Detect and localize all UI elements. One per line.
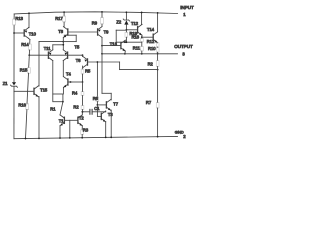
svg-text:R12: R12 xyxy=(147,39,155,44)
transistor T2 xyxy=(77,117,79,123)
step to T7 collector xyxy=(102,92,111,94)
svg-text:R2: R2 xyxy=(73,105,79,110)
svg-text:T13: T13 xyxy=(110,41,118,46)
svg-text:R11: R11 xyxy=(133,45,141,50)
transistor T13 xyxy=(102,45,121,47)
bottom rail (GND) xyxy=(14,136,178,138)
resistor R11 xyxy=(140,46,143,51)
svg-text:T15: T15 xyxy=(40,88,48,93)
T12 collector to rail xyxy=(141,12,143,24)
zener Z1 xyxy=(12,82,16,85)
svg-text:R18: R18 xyxy=(132,34,140,39)
transistor T6 xyxy=(87,59,89,65)
transistor T10 xyxy=(14,32,24,34)
svg-text:R3: R3 xyxy=(83,127,89,132)
resistor R3 xyxy=(81,126,83,130)
wire x30 slanted (T10 emitter chain) xyxy=(29,39,31,44)
svg-text:T6: T6 xyxy=(76,58,82,63)
transistor T1 xyxy=(63,117,65,123)
resistor R12 xyxy=(156,43,159,47)
T8-T9 base wire xyxy=(68,31,98,33)
svg-text:Z1: Z1 xyxy=(3,81,9,86)
T5 to T4 wire xyxy=(62,61,64,77)
svg-text:T8: T8 xyxy=(58,29,64,34)
svg-text:T1: T1 xyxy=(59,118,65,123)
svg-text:Z2: Z2 xyxy=(116,19,122,24)
resistor R5 xyxy=(81,69,84,74)
resistor R15 xyxy=(28,68,31,74)
wire R1 box to T1 collector xyxy=(60,102,63,115)
transistor T5 xyxy=(67,52,69,58)
svg-text:R6: R6 xyxy=(93,96,99,101)
resistor R13 xyxy=(13,19,16,25)
resistor R17 xyxy=(63,16,66,22)
T11 emitter corner xyxy=(52,45,54,50)
T3 emitter xyxy=(105,121,107,123)
transistor T15 xyxy=(14,90,34,92)
T13 emitter xyxy=(124,51,126,54)
OUTPUT wire y53.8 xyxy=(102,53,178,55)
svg-text:R14: R14 xyxy=(21,42,29,47)
svg-text:INPUT: INPUT xyxy=(180,5,194,10)
T9 collector down x102 xyxy=(101,37,103,45)
transistor T14 xyxy=(142,36,153,38)
wire x63.3 T8-T5 xyxy=(62,37,64,49)
T6 base wire xyxy=(88,61,120,63)
x39 wire T15 collector xyxy=(38,42,40,86)
svg-text:3: 3 xyxy=(182,52,185,57)
wire corner x116.2 xyxy=(116,29,126,31)
transistor T11 xyxy=(47,52,49,58)
transistor T8 xyxy=(67,29,69,35)
T3 collector xyxy=(105,110,107,113)
junction xyxy=(13,32,15,34)
resistor R7 xyxy=(157,70,159,103)
svg-text:OUTPUT: OUTPUT xyxy=(174,44,193,49)
junction xyxy=(62,41,64,43)
svg-text:T11: T11 xyxy=(44,46,51,51)
base tap to rail xyxy=(69,120,71,138)
resistor R2 xyxy=(157,54,159,61)
T10 collector to rail xyxy=(28,13,30,27)
resistor R1 xyxy=(53,94,63,102)
junction T4 base xyxy=(82,81,84,83)
svg-text:T12: T12 xyxy=(131,21,139,26)
svg-text:2: 2 xyxy=(183,134,186,139)
transistor T7 xyxy=(97,104,106,106)
T4 emitter down xyxy=(62,87,64,94)
junction xyxy=(62,44,64,46)
transistor T9 xyxy=(97,29,99,35)
top rail (INPUT) xyxy=(14,12,177,14)
svg-text:R16: R16 xyxy=(18,102,26,107)
node wire y42.2 xyxy=(116,41,142,43)
T1-T2 base wire xyxy=(64,119,78,121)
transistor T4 xyxy=(67,79,69,85)
T11 collector down x52.8 xyxy=(52,61,54,94)
svg-text:R4: R4 xyxy=(72,91,78,96)
T4 base arrow xyxy=(70,81,73,83)
T1 emitter to rail xyxy=(59,126,61,138)
junction xyxy=(28,12,30,14)
svg-text:R2: R2 xyxy=(148,61,154,66)
wire y41.6 xyxy=(39,41,63,43)
resistor R14 xyxy=(28,44,31,50)
left column wire x14 xyxy=(13,14,15,19)
svg-text:T4: T4 xyxy=(66,72,72,77)
svg-text:T2: T2 xyxy=(79,115,85,120)
svg-text:R9: R9 xyxy=(92,20,98,25)
svg-text:R15: R15 xyxy=(20,67,28,72)
svg-text:T10: T10 xyxy=(29,31,37,36)
svg-text:R17: R17 xyxy=(55,16,63,21)
svg-text:T5: T5 xyxy=(75,45,81,50)
svg-text:R10: R10 xyxy=(148,46,156,51)
svg-text:T14: T14 xyxy=(147,27,155,32)
T4 base wire xyxy=(68,81,83,83)
resistor R9 xyxy=(101,18,104,25)
R9 top xyxy=(101,12,103,18)
T2 collector up xyxy=(81,112,83,115)
svg-text:R7: R7 xyxy=(146,100,152,105)
T15 emitter xyxy=(38,97,40,139)
svg-text:T3: T3 xyxy=(108,112,114,117)
resistor R2 lower xyxy=(81,106,84,110)
R6 wire xyxy=(96,62,98,97)
transistor T12 xyxy=(126,29,137,31)
T13 collector xyxy=(124,40,126,42)
junction base rail xyxy=(28,54,30,56)
capacitor C1 xyxy=(82,111,90,113)
svg-text:R1: R1 xyxy=(50,107,56,112)
T8 collector loop wire xyxy=(64,34,76,36)
resistor R4 xyxy=(81,92,84,96)
T14 collector to rail xyxy=(157,13,159,32)
svg-text:T7: T7 xyxy=(113,102,119,107)
T7 emitter xyxy=(110,109,112,111)
T12 emitter down xyxy=(141,35,143,37)
transistor T3 xyxy=(96,105,98,117)
T14 emitter down xyxy=(157,42,159,44)
svg-text:T9: T9 xyxy=(104,29,110,34)
svg-text:R5: R5 xyxy=(85,69,91,74)
resistor R10 xyxy=(156,48,159,53)
svg-text:R13: R13 xyxy=(15,16,23,21)
junction xyxy=(25,138,27,140)
resistor R16 xyxy=(26,104,29,110)
x82.5 from base rail xyxy=(82,55,84,56)
svg-text:1: 1 xyxy=(183,12,186,17)
resistor R19 xyxy=(125,30,127,32)
column x82.5 (R5,R4,R2) xyxy=(82,66,84,69)
base rail wire y55 xyxy=(29,54,82,56)
R17 top xyxy=(63,12,65,16)
zener Z2 xyxy=(125,12,127,20)
T7 collector xyxy=(110,99,112,101)
resistor R18 xyxy=(141,37,143,38)
